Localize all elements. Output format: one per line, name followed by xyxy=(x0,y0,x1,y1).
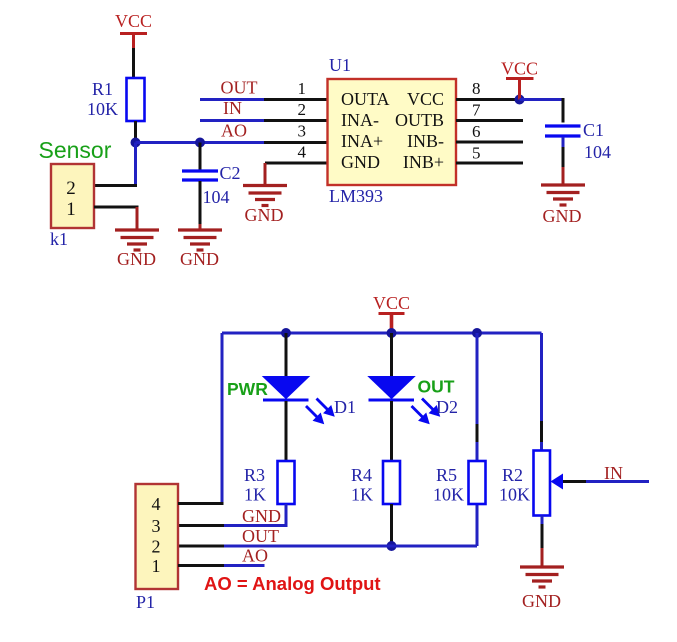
wire pin8 node to C1 (blue) xyxy=(520,98,564,101)
wire pin1 down to ground xyxy=(136,207,139,230)
svg-text:R4: R4 xyxy=(351,465,372,485)
svg-text:OUT: OUT xyxy=(221,78,258,98)
resistor R1 xyxy=(127,78,145,121)
svg-text:104: 104 xyxy=(584,142,611,162)
junction node bus/D2 xyxy=(387,328,397,338)
svg-text:1K: 1K xyxy=(244,485,266,505)
svg-text:AO: AO xyxy=(221,121,247,141)
wire bus right vertical to R2 xyxy=(540,333,543,451)
svg-text:4: 4 xyxy=(152,494,161,514)
resistor R4 xyxy=(383,461,400,504)
svg-text:C1: C1 xyxy=(583,120,604,140)
wire VCC bus horizontal xyxy=(222,332,542,335)
svg-text:4: 4 xyxy=(298,143,307,162)
svg-text:GND: GND xyxy=(245,205,284,225)
svg-text:OUT: OUT xyxy=(242,526,279,546)
svg-text:7: 7 xyxy=(472,101,481,120)
svg-text:VCC: VCC xyxy=(501,59,538,79)
svg-text:2: 2 xyxy=(298,100,307,119)
LED D2 xyxy=(369,377,415,401)
wire sensor pin 2 xyxy=(94,184,137,187)
svg-text:VCC: VCC xyxy=(115,11,152,31)
power symbol VCC bottom xyxy=(373,293,410,333)
svg-text:OUT: OUT xyxy=(418,377,455,397)
wire D2 to R4 xyxy=(390,401,393,461)
junction node bus/D1 xyxy=(281,328,291,338)
wire C2 top lead xyxy=(199,143,202,170)
svg-text:VCC: VCC xyxy=(373,293,410,313)
ground (sensor pin 1) xyxy=(115,230,159,250)
svg-text:OUTA: OUTA xyxy=(341,89,390,109)
svg-text:3: 3 xyxy=(298,122,307,141)
wire R3 down to GND net xyxy=(285,504,288,527)
wire bus to D1 xyxy=(285,333,288,377)
ground (U1 pin 4) xyxy=(243,186,287,206)
svg-text:6: 6 xyxy=(472,122,481,141)
svg-text:GND: GND xyxy=(180,249,219,269)
junction node at C2 xyxy=(195,138,205,148)
svg-text:IN: IN xyxy=(223,98,242,118)
wire node down to sensor pin 2 xyxy=(134,143,137,186)
wire U1 pin 7 xyxy=(456,119,523,122)
connector P1 xyxy=(136,484,179,589)
svg-text:k1: k1 xyxy=(50,229,68,249)
wire IN to U1 pin 2 xyxy=(264,119,328,122)
power symbol VCC top-left xyxy=(115,11,152,48)
wire pin4 down to ground xyxy=(264,163,267,186)
wire D1 to R3 xyxy=(285,401,288,461)
net wire OUT (stub) xyxy=(200,98,264,101)
svg-text:AO = Analog Output: AO = Analog Output xyxy=(204,573,381,594)
svg-text:5: 5 xyxy=(472,144,481,163)
wire C1 bottom lead xyxy=(562,137,565,185)
svg-text:GND: GND xyxy=(341,152,380,172)
svg-text:3: 3 xyxy=(152,516,161,536)
wire GND net to P1 pin 3 (blue) xyxy=(224,524,288,527)
junction node bus/R5 xyxy=(472,328,482,338)
svg-text:GND: GND xyxy=(117,249,156,269)
svg-text:R2: R2 xyxy=(502,465,523,485)
svg-text:10K: 10K xyxy=(433,485,464,505)
wire wiper to IN xyxy=(563,480,649,483)
wire bus to R5 xyxy=(476,333,479,461)
light arrows D2 xyxy=(412,399,440,424)
svg-text:U1: U1 xyxy=(329,55,351,75)
wire sensor pin 1 xyxy=(94,206,139,209)
ground (C2) xyxy=(178,230,222,250)
wire OUT net up to R5 xyxy=(476,504,479,546)
wiper arrow R2 xyxy=(551,474,564,490)
wire VCC to R1 xyxy=(132,48,135,79)
svg-text:1K: 1K xyxy=(351,485,373,505)
wire OUT to U1 pin 1 xyxy=(264,98,328,101)
svg-text:1: 1 xyxy=(298,79,307,98)
svg-text:INB-: INB- xyxy=(407,131,444,151)
power symbol VCC right xyxy=(501,59,538,100)
svg-text:LM393: LM393 xyxy=(329,186,383,206)
wire AO to U1 pin 3 xyxy=(264,141,328,144)
wire VCC bus left vertical xyxy=(221,333,224,505)
svg-text:INB+: INB+ xyxy=(403,152,444,172)
svg-text:INA+: INA+ xyxy=(341,131,383,151)
wire P1 pin 4 xyxy=(178,502,224,505)
net wire IN (stub) xyxy=(200,119,264,122)
svg-text:GND: GND xyxy=(543,206,582,226)
svg-text:D1: D1 xyxy=(334,397,356,417)
junction node OUT/R4 xyxy=(387,541,397,551)
svg-text:1: 1 xyxy=(66,199,76,220)
potentiometer R2 xyxy=(534,451,551,516)
svg-text:VCC: VCC xyxy=(407,89,444,109)
resistor R5 xyxy=(469,461,486,504)
junction node at VCC/pin8 xyxy=(515,95,525,105)
connector k1 (Sensor) xyxy=(51,164,94,228)
wire U1 pin 4 xyxy=(265,162,328,165)
resistor R3 xyxy=(278,461,295,504)
wire node to C2 node and AO (blue) xyxy=(136,141,265,144)
wire U1 pin 5 xyxy=(456,162,523,165)
capacitor C2 xyxy=(182,171,218,180)
svg-text:10K: 10K xyxy=(499,485,530,505)
svg-text:PWR: PWR xyxy=(227,379,268,399)
svg-text:8: 8 xyxy=(472,79,481,98)
LED D1 xyxy=(263,377,309,401)
capacitor C1 xyxy=(545,126,581,136)
wire C2 bottom lead xyxy=(199,181,202,230)
svg-text:2: 2 xyxy=(152,537,161,557)
svg-text:2: 2 xyxy=(66,178,76,199)
wire P1 pin 3 xyxy=(178,524,224,527)
svg-text:IN: IN xyxy=(604,463,623,483)
svg-text:AO: AO xyxy=(242,546,268,566)
svg-text:OUTB: OUTB xyxy=(395,110,444,130)
wire bus to D2 xyxy=(390,333,393,377)
ground (C1) xyxy=(541,185,585,205)
svg-text:INA-: INA- xyxy=(341,110,379,130)
wire R2 down to ground xyxy=(541,516,544,568)
svg-text:GND: GND xyxy=(522,591,561,611)
svg-text:1: 1 xyxy=(152,556,161,576)
net wire AO stub (blue) xyxy=(224,564,265,567)
wire R1 to node xyxy=(134,121,137,142)
svg-text:P1: P1 xyxy=(136,592,155,612)
svg-text:R1: R1 xyxy=(92,79,113,99)
svg-text:Sensor: Sensor xyxy=(39,137,112,163)
svg-text:104: 104 xyxy=(203,187,230,207)
svg-text:R5: R5 xyxy=(436,465,457,485)
wire OUT net (blue) xyxy=(224,545,477,548)
op-amp U1 body xyxy=(328,79,457,185)
svg-text:GND: GND xyxy=(242,506,281,526)
wire U1 pin 8 xyxy=(456,98,517,101)
wire down to C1 xyxy=(562,98,565,123)
svg-text:10K: 10K xyxy=(87,99,118,119)
wire U1 pin 6 xyxy=(456,141,523,144)
wire P1 pin 2 xyxy=(178,545,224,548)
wire P1 pin 1 xyxy=(178,564,224,567)
svg-text:R3: R3 xyxy=(244,465,265,485)
svg-text:D2: D2 xyxy=(436,397,458,417)
junction node at R1/sensor xyxy=(131,138,141,148)
light arrows D1 xyxy=(306,399,334,424)
wire R4 to OUT net xyxy=(390,504,393,546)
ground (R2) xyxy=(520,567,564,587)
svg-text:C2: C2 xyxy=(220,163,241,183)
